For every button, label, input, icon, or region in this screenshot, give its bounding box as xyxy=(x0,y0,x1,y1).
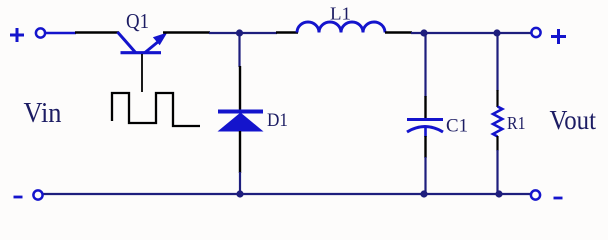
square wave control signal xyxy=(112,93,200,126)
svg-text:D1: D1 xyxy=(267,110,288,131)
wire navy top rail right xyxy=(411,32,531,34)
plus sign output xyxy=(551,29,566,44)
wire black from transistor collector xyxy=(163,31,210,33)
lead black inductor right xyxy=(385,31,412,33)
wire navy bottom rail xyxy=(44,193,531,195)
junction dot bottom D1 xyxy=(236,190,243,197)
transistor Q1 xyxy=(118,32,167,53)
junction dot bottom R1 xyxy=(495,190,502,197)
junction dot top D1 xyxy=(236,29,243,36)
transistor base lead xyxy=(141,54,143,92)
svg-text:C1: C1 xyxy=(446,116,468,137)
wire navy D1 branch lower xyxy=(239,172,241,194)
wire navy top rail left of D1 node xyxy=(209,32,277,34)
wire navy C1 branch lower xyxy=(424,157,426,194)
minus sign input xyxy=(14,196,23,199)
svg-text:Q1: Q1 xyxy=(126,9,149,33)
svg-text:L1: L1 xyxy=(330,4,351,24)
capacitor C1 xyxy=(407,120,443,138)
lead black C1 lower xyxy=(424,136,426,158)
junction dot bottom C1 xyxy=(420,190,427,197)
output terminal circle bottom-right xyxy=(531,190,540,199)
lead black R1 lower xyxy=(496,136,498,151)
svg-text:Vout: Vout xyxy=(550,105,597,135)
wire blue D1 branch upper xyxy=(238,33,240,67)
svg-text:R1: R1 xyxy=(507,113,526,133)
lead black inductor left xyxy=(276,31,298,33)
wire navy R1 branch lower xyxy=(496,150,498,194)
svg-text:Vin: Vin xyxy=(24,97,62,129)
wire black to transistor emitter xyxy=(75,31,119,33)
junction dot top R1 xyxy=(493,29,500,36)
lead black D1 lower xyxy=(239,131,241,173)
diode D1 xyxy=(218,112,264,132)
wire navy R1 branch upper xyxy=(496,33,498,91)
lead black R1 upper xyxy=(496,90,498,107)
lead black C1 upper xyxy=(424,96,426,118)
wire blue stub from input terminal xyxy=(46,32,76,34)
inductor L1 xyxy=(297,22,385,32)
plus sign input terminal xyxy=(10,28,24,42)
junction dot top C1 xyxy=(420,29,427,36)
input terminal circle top-left xyxy=(36,28,45,37)
input terminal circle bottom-left xyxy=(33,190,42,199)
output terminal circle top-right xyxy=(531,28,540,37)
wire navy C1 branch upper xyxy=(424,33,426,97)
lead black D1 upper xyxy=(239,66,241,110)
resistor R1 xyxy=(493,107,502,137)
minus sign output xyxy=(554,197,563,200)
